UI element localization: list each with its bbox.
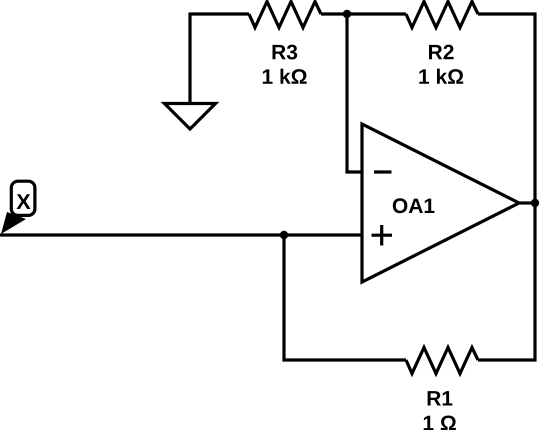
wire between R2 and output net corner bbox=[478, 12, 537, 15]
node A junction dot (R3/R2/inverting feedback) bbox=[343, 10, 351, 18]
wire top segment from ground branch corner to R3 bbox=[190, 12, 249, 15]
node B junction dot on non-inverting net bbox=[280, 231, 288, 239]
wire between R3 and node A bbox=[321, 12, 347, 15]
wire ground branch vertical bbox=[188, 13, 191, 105]
R2 value label bbox=[419, 45, 463, 84]
wire between node A and R2 bbox=[347, 12, 406, 15]
R3 value label bbox=[263, 45, 307, 84]
op-amp OA1 non-inverting input plus sign bbox=[372, 225, 393, 246]
resistor R3 bbox=[249, 2, 321, 28]
wire from node A down to inverting input of OA1 bbox=[347, 14, 362, 172]
wire bottom right segment from R1 to output net bbox=[478, 358, 537, 361]
R1 value label bbox=[424, 391, 456, 430]
wire non-inverting input net from X label to op-amp bbox=[0, 233, 362, 236]
node C junction dot at op-amp output bbox=[531, 199, 539, 207]
resistor R1 bbox=[406, 348, 478, 374]
wire op-amp output to right vertical bbox=[519, 201, 535, 204]
node X input label flag bbox=[1, 181, 35, 234]
op-amp OA1 reference designator label bbox=[393, 198, 435, 213]
ground bbox=[165, 104, 216, 130]
wire bottom left segment to R1 bbox=[283, 358, 407, 361]
resistor R2 bbox=[406, 2, 478, 28]
wire output net right vertical bbox=[533, 13, 536, 362]
op-amp OA1 inverting input minus sign bbox=[374, 170, 392, 173]
op-amp OA1 body bbox=[362, 124, 519, 282]
wire node B down to bottom feedback run bbox=[282, 235, 285, 362]
